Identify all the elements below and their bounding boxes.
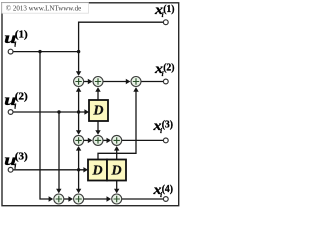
svg-text:D: D bbox=[92, 104, 103, 119]
svg-text:(2): (2) bbox=[163, 63, 175, 74]
svg-text:(3): (3) bbox=[162, 120, 174, 131]
svg-text:© 2013 www.LNTwww.de: © 2013 www.LNTwww.de bbox=[6, 4, 81, 12]
svg-text:(4): (4) bbox=[162, 184, 174, 195]
svg-text:i: i bbox=[14, 40, 16, 48]
svg-text:(3): (3) bbox=[15, 151, 28, 162]
svg-text:i: i bbox=[14, 102, 16, 110]
svg-text:(1): (1) bbox=[163, 4, 175, 15]
svg-text:D: D bbox=[92, 164, 103, 179]
svg-text:i: i bbox=[14, 162, 16, 170]
svg-text:D: D bbox=[111, 164, 122, 179]
svg-text:(1): (1) bbox=[15, 29, 28, 40]
svg-text:(2): (2) bbox=[15, 91, 28, 102]
